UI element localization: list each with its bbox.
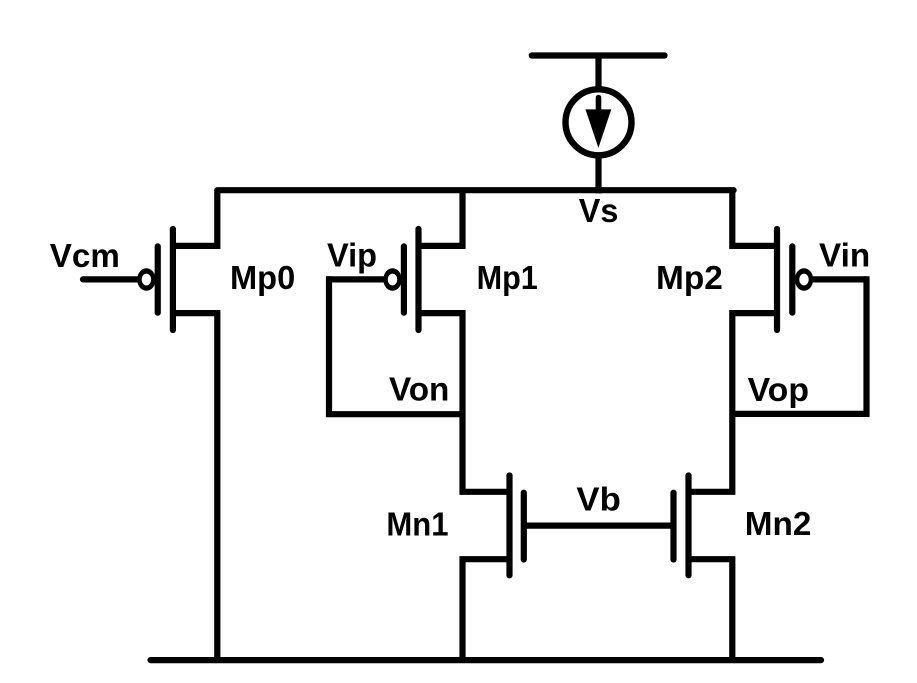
svg-text:Vip: Vip (327, 238, 377, 275)
svg-text:Mn2: Mn2 (745, 506, 812, 543)
svg-text:Mn1: Mn1 (386, 506, 448, 543)
svg-text:Mp2: Mp2 (656, 260, 723, 297)
svg-text:Mp0: Mp0 (230, 260, 295, 297)
svg-text:Vin: Vin (819, 238, 870, 275)
svg-text:Vb: Vb (576, 481, 620, 518)
svg-text:Vop: Vop (748, 372, 809, 409)
svg-text:Vs: Vs (579, 193, 619, 230)
svg-text:Von: Von (389, 372, 449, 409)
svg-text:Vcm: Vcm (50, 238, 120, 275)
svg-text:Mp1: Mp1 (477, 260, 538, 297)
